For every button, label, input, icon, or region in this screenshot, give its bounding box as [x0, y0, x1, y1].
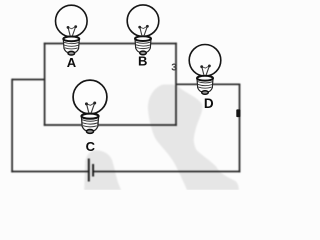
svg-text:B: B	[138, 54, 147, 69]
wire: outer loop right edge	[239, 84, 241, 172]
wire: inner rectangle right edge	[175, 43, 177, 126]
wire: inner rectangle bottom rail	[44, 124, 177, 126]
svg-text:D: D	[204, 96, 214, 111]
battery long plate	[88, 159, 90, 182]
watermark gray finger (near battery)	[84, 150, 121, 190]
label D	[204, 96, 214, 111]
wire: battery to bottom right corner	[94, 171, 241, 173]
wire: branch from left edge to outer loop	[12, 79, 45, 81]
wire: inner rectangle left edge	[44, 43, 46, 126]
wire: inner rectangle top rail	[44, 43, 177, 45]
wire: bottom left to battery	[11, 171, 88, 173]
bulb A	[56, 5, 88, 55]
mark "I" on right wire	[236, 109, 240, 117]
wire: top right to bulb D branch	[176, 83, 240, 85]
label C	[86, 139, 96, 154]
label A	[67, 55, 77, 70]
svg-text:3: 3	[171, 61, 177, 73]
battery short plate	[92, 164, 94, 177]
mark "3" near node	[171, 61, 177, 73]
bulb B	[127, 5, 159, 55]
watermark gray band (right)	[148, 85, 239, 191]
wire: outer loop left edge	[11, 79, 13, 173]
bulb D	[189, 45, 221, 95]
svg-text:A: A	[67, 55, 77, 70]
svg-text:C: C	[86, 139, 96, 154]
label B	[138, 54, 147, 69]
bulb C	[73, 80, 107, 133]
